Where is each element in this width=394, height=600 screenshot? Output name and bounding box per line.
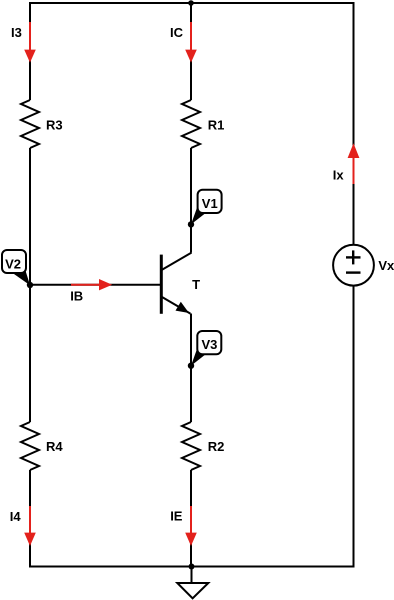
label R3	[46, 118, 63, 133]
svg-text:R4: R4	[46, 439, 63, 454]
wire right branch upper	[353, 2, 355, 245]
label T	[192, 277, 200, 292]
wire emitter	[190, 314, 192, 423]
svg-text:Ix: Ix	[333, 167, 345, 182]
current arrow IB	[71, 279, 112, 290]
resistor R2	[182, 422, 200, 470]
junction dot bottom	[189, 564, 195, 570]
svg-text:I3: I3	[11, 25, 22, 40]
label R1	[208, 118, 225, 133]
current arrow IC	[185, 22, 197, 63]
wire middle branch lower	[190, 470, 192, 567]
label R2	[208, 439, 225, 454]
label I4	[10, 509, 22, 524]
wire left branch lower	[29, 470, 31, 568]
label Vx	[378, 258, 394, 273]
svg-text:I4: I4	[10, 509, 22, 524]
svg-text:R3: R3	[46, 118, 63, 133]
wire base	[30, 284, 161, 286]
transistor T	[161, 255, 190, 314]
wire left branch middle	[29, 148, 31, 422]
label Ix	[333, 167, 345, 182]
svg-text:T: T	[192, 277, 200, 292]
node V3	[188, 331, 222, 369]
svg-text:V1: V1	[202, 196, 218, 211]
svg-text:IB: IB	[70, 288, 83, 303]
wire right branch lower	[353, 286, 355, 568]
label R4	[46, 439, 63, 454]
wire collector	[162, 148, 192, 270]
node V2	[2, 250, 33, 288]
wire middle branch upper	[190, 2, 192, 100]
svg-text:R2: R2	[208, 439, 225, 454]
resistor R1	[182, 100, 200, 148]
svg-text:V2: V2	[5, 256, 21, 271]
node V1	[188, 190, 222, 228]
ground	[177, 567, 208, 599]
wire bottom rail	[30, 566, 354, 568]
current arrow I4	[24, 506, 36, 546]
svg-text:IC: IC	[170, 25, 184, 40]
wire left branch upper	[29, 2, 31, 100]
current arrow Ix	[348, 143, 360, 184]
wire top rail	[30, 2, 354, 4]
junction dot top	[188, 0, 194, 6]
svg-text:Vx: Vx	[378, 258, 394, 273]
current arrow IE	[185, 506, 197, 546]
svg-text:V3: V3	[202, 337, 218, 352]
voltage source Vx	[333, 245, 374, 286]
label IE	[170, 509, 183, 524]
label IC	[170, 25, 184, 40]
svg-text:R1: R1	[208, 118, 225, 133]
label IB	[70, 288, 83, 303]
resistor R4	[21, 422, 39, 470]
label I3	[11, 25, 22, 40]
resistor R3	[21, 100, 39, 148]
svg-text:IE: IE	[170, 509, 183, 524]
current arrow I3	[24, 22, 36, 63]
